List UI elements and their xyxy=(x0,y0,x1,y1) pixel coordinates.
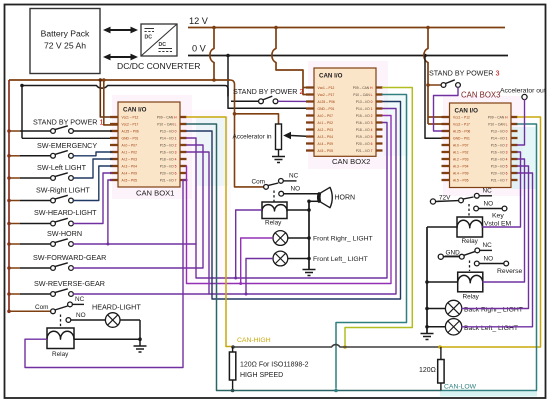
svg-text:NO: NO xyxy=(76,312,86,319)
svg-text:P18 – I/O 4: P18 – I/O 4 xyxy=(160,157,177,161)
svg-text:P16 – I/O 3: P16 – I/O 3 xyxy=(356,121,373,125)
svg-text:AI.25 – P06: AI.25 – P06 xyxy=(122,129,139,133)
svg-text:CAN BOX2: CAN BOX2 xyxy=(332,157,370,166)
svg-text:P16 – I/O 3: P16 – I/O 3 xyxy=(491,150,508,154)
svg-text:SW-FORWARD-GEAR: SW-FORWARD-GEAR xyxy=(33,253,106,262)
switch key 72V xyxy=(459,188,512,228)
svg-text:HIGH SPEED: HIGH SPEED xyxy=(240,372,283,379)
svg-text:Back Left_ LIGHT: Back Left_ LIGHT xyxy=(464,325,518,332)
svg-text:P21 – I/O 7: P21 – I/O 7 xyxy=(356,149,373,153)
horn LS1 xyxy=(309,187,355,207)
svg-text:Relay: Relay xyxy=(462,238,479,245)
svg-text:Vcc1 – P12: Vcc1 – P12 xyxy=(318,86,335,90)
svg-text:P21 – I/O 7: P21 – I/O 7 xyxy=(160,178,177,182)
wire relay K2 left xyxy=(427,226,457,228)
svg-text:12 V: 12 V xyxy=(189,16,209,26)
svg-text:P16 – I/O 3: P16 – I/O 3 xyxy=(160,150,177,154)
wire relay K4 left xyxy=(425,280,458,284)
wire CAN-L from CAN BOX1 and CAN-LOW rail xyxy=(187,124,441,391)
svg-text:Com: Com xyxy=(252,179,266,186)
wire back right lamp to CAN BOX3 xyxy=(462,166,529,309)
relay K4 reverse xyxy=(458,272,483,300)
svg-text:Key: Key xyxy=(492,213,504,220)
svg-text:P19 – I/O 5: P19 – I/O 5 xyxy=(491,164,508,168)
wire relay K1 right xyxy=(287,209,309,211)
ground accelerator in xyxy=(272,157,285,163)
wire relay K4 to CAN BOX3 xyxy=(483,159,525,282)
switch SW9 stand by power 2 xyxy=(233,87,306,104)
svg-text:SW-EMERGENCY: SW-EMERGENCY xyxy=(37,141,97,150)
svg-text:72 V 25 Ah: 72 V 25 Ah xyxy=(44,41,86,51)
bus arrows battery to converter xyxy=(103,27,138,61)
wire front left lamp to CAN BOX2 xyxy=(209,109,396,296)
svg-text:AI.2 – P03: AI.2 – P03 xyxy=(122,157,138,161)
switch SW6 horn xyxy=(7,180,196,246)
svg-text:P19 – I/O 5: P19 – I/O 5 xyxy=(160,164,177,168)
svg-text:AI.4 – P09: AI.4 – P09 xyxy=(122,171,138,175)
can i/o module U3 xyxy=(442,91,518,188)
svg-text:P10 – CAN L: P10 – CAN L xyxy=(157,122,176,126)
wire heard lamp to ground xyxy=(138,320,142,346)
svg-text:CAN I/O: CAN I/O xyxy=(123,107,147,114)
svg-text:HORN: HORN xyxy=(335,195,356,202)
svg-text:P21 – I/O 7: P21 – I/O 7 xyxy=(491,178,508,182)
svg-text:DC: DC xyxy=(159,42,167,48)
wire Vcc feed CAN BOX1 xyxy=(99,78,119,125)
node 0V label xyxy=(192,44,207,54)
wire relay K3 coil right xyxy=(74,338,140,340)
svg-text:GND – P01: GND – P01 xyxy=(318,107,335,111)
svg-text:120Ω For ISO11898-2: 120Ω For ISO11898-2 xyxy=(240,362,309,369)
svg-text:Relay: Relay xyxy=(52,351,69,358)
svg-text:P15 – I/O 2: P15 – I/O 2 xyxy=(356,114,373,118)
relay K3 heard xyxy=(47,328,74,358)
wire back left lamp to CAN BOX3 xyxy=(462,173,533,327)
svg-text:Accelerator in: Accelerator in xyxy=(233,134,273,141)
wire 12V drop to CAN BOX2 xyxy=(272,28,314,95)
wire CAN-H from CAN BOX1 xyxy=(187,117,232,347)
svg-text:SW-Right LIGHT: SW-Right LIGHT xyxy=(36,185,90,194)
terminal accelerator out xyxy=(500,88,546,146)
wire right section bus xyxy=(426,227,428,333)
node CAN-LOW label xyxy=(444,384,477,391)
svg-text:AI.5 – P05: AI.5 – P05 xyxy=(453,178,469,182)
svg-text:Vcc2 – P17: Vcc2 – P17 xyxy=(453,122,470,126)
wire CAN-LOW rail right xyxy=(440,390,537,392)
svg-text:NO: NO xyxy=(484,201,494,208)
wire relay K2 to CAN BOX3 xyxy=(483,152,521,227)
potentiometer accelerator in xyxy=(233,124,282,156)
svg-text:Vcc2 – P17: Vcc2 – P17 xyxy=(122,122,139,126)
svg-text:P18 – I/O 4: P18 – I/O 4 xyxy=(356,128,373,132)
svg-text:CAN I/O: CAN I/O xyxy=(455,108,479,115)
svg-text:AI.2 – P03: AI.2 – P03 xyxy=(318,128,334,132)
svg-text:NO: NO xyxy=(291,186,301,193)
wire left supply rail xyxy=(8,80,10,311)
wire horn feed from CAN BOX1 I/O1 xyxy=(187,138,197,244)
svg-text:P10 – CAN L: P10 – CAN L xyxy=(488,122,507,126)
svg-text:Relay: Relay xyxy=(463,294,480,301)
battery pack xyxy=(30,9,100,74)
ground right bus xyxy=(421,334,434,340)
svg-text:P20 – I/O 6: P20 – I/O 6 xyxy=(491,171,508,175)
svg-text:STAND BY POWER 1: STAND BY POWER 1 xyxy=(33,118,103,127)
lamp back right xyxy=(425,300,523,316)
svg-text:P15 – I/O 2: P15 – I/O 2 xyxy=(160,143,177,147)
svg-text:GND: GND xyxy=(446,250,461,257)
svg-text:CAN BOX1: CAN BOX1 xyxy=(136,189,174,198)
svg-text:CAN BOX3: CAN BOX3 xyxy=(461,91,500,100)
svg-text:P09 – CAN H: P09 – CAN H xyxy=(157,115,177,119)
wire 0V drop to stand-by-power-2 and BOX2 GND xyxy=(228,56,306,109)
wire CAN BOX1 I/O0 interconnect xyxy=(187,102,401,300)
svg-text:AI.25 – P06: AI.25 – P06 xyxy=(453,129,470,133)
wire CAN-L from CAN BOX3 xyxy=(518,124,537,391)
svg-text:Vcc1 – P12: Vcc1 – P12 xyxy=(122,115,139,119)
svg-text:Front Righr_ LIGHT: Front Righr_ LIGHT xyxy=(313,236,373,243)
svg-text:P13 – I/O 0: P13 – I/O 0 xyxy=(356,100,373,104)
svg-text:Front Left_ LIGHT: Front Left_ LIGHT xyxy=(313,256,368,263)
svg-text:HEARD-LIGHT: HEARD-LIGHT xyxy=(92,303,141,312)
svg-text:P18 – I/O 4: P18 – I/O 4 xyxy=(491,157,508,161)
svg-text:AI.3 – P04: AI.3 – P04 xyxy=(318,135,334,139)
switch SW1 stand by power 1 xyxy=(7,118,112,134)
svg-text:AI.3 – P04: AI.3 – P04 xyxy=(122,164,138,168)
relay K1 front xyxy=(262,202,287,227)
terminal GND reverse xyxy=(438,250,461,260)
wire 12V drop to left section xyxy=(210,28,216,82)
lamp back left xyxy=(425,319,518,335)
svg-text:SW-HEARD-LIGHT: SW-HEARD-LIGHT xyxy=(34,208,97,217)
node R1 value label xyxy=(240,362,309,380)
svg-text:AI.25 – P06: AI.25 – P06 xyxy=(318,100,335,104)
svg-text:120Ω: 120Ω xyxy=(419,367,436,374)
svg-text:P19 – I/O 5: P19 – I/O 5 xyxy=(356,135,373,139)
wire relay K1 coil to CAN BOX2 xyxy=(196,123,387,280)
svg-text:STAND BY POWER 2: STAND BY POWER 2 xyxy=(233,87,303,96)
svg-text:0 V: 0 V xyxy=(192,44,207,54)
wire 0V rail xyxy=(188,54,508,58)
svg-text:P20 – I/O 6: P20 – I/O 6 xyxy=(160,171,177,175)
dc/dc converter xyxy=(117,24,200,71)
svg-text:GND – P01: GND – P01 xyxy=(453,136,470,140)
svg-text:DC/DC CONVERTER: DC/DC CONVERTER xyxy=(117,61,200,71)
switch SW4 right light xyxy=(7,166,112,203)
svg-text:P14 – I/O 1: P14 – I/O 1 xyxy=(356,107,373,111)
svg-text:P14 – I/O 1: P14 – I/O 1 xyxy=(491,136,508,140)
svg-text:AI.5 – P05: AI.5 – P05 xyxy=(318,149,334,153)
svg-text:AI.3 – P04: AI.3 – P04 xyxy=(453,164,469,168)
svg-text:AI.1 – P02: AI.1 – P02 xyxy=(122,150,138,154)
relay K2 key xyxy=(457,217,483,245)
svg-text:GND – P01: GND – P01 xyxy=(122,136,139,140)
wire 0V drop to CAN BOX3 GND xyxy=(425,56,442,139)
svg-text:Battery Pack: Battery Pack xyxy=(41,29,90,39)
wire com feed brown xyxy=(230,80,264,187)
ground heard light xyxy=(134,346,147,352)
wire front right lamp to CAN BOX2 xyxy=(187,116,392,286)
wire 0V to SBP1 xyxy=(20,84,110,139)
wire 12V drop to accelerator pot xyxy=(233,112,279,124)
wire CAN-L from CAN BOX2 xyxy=(334,95,406,393)
svg-text:SW-HORN: SW-HORN xyxy=(47,229,82,238)
svg-text:CAN-LOW: CAN-LOW xyxy=(444,384,477,391)
svg-text:NC: NC xyxy=(289,173,299,180)
svg-text:AI.4 – P09: AI.4 – P09 xyxy=(318,142,334,146)
svg-text:P13 – I/O 0: P13 – I/O 0 xyxy=(491,129,508,133)
switch SW5 heard light xyxy=(7,173,112,226)
terminal 72V xyxy=(430,195,458,205)
wire wiper accelerator in xyxy=(283,132,306,139)
can i/o module U2 xyxy=(306,68,383,166)
switch SW10 stand by power 3 xyxy=(428,69,499,132)
svg-text:Back Righr_ LIGHT: Back Righr_ LIGHT xyxy=(464,307,523,314)
node CAN-HIGH label xyxy=(237,337,271,344)
svg-text:AI.0 – P07: AI.0 – P07 xyxy=(453,143,469,147)
svg-text:SW-Left LIGHT: SW-Left LIGHT xyxy=(37,163,87,172)
svg-text:P09 – CAN H: P09 – CAN H xyxy=(488,115,508,119)
svg-text:AI.5 – P05: AI.5 – P05 xyxy=(122,178,138,182)
wire CAN-H from CAN BOX2 xyxy=(343,88,412,349)
svg-text:DC: DC xyxy=(145,35,153,41)
node R2 value label xyxy=(419,367,436,374)
svg-text:Vcc2 – P17: Vcc2 – P17 xyxy=(318,93,335,97)
svg-text:Relay: Relay xyxy=(265,220,282,227)
svg-text:P09 – CAN H: P09 – CAN H xyxy=(353,86,373,90)
lamp front left xyxy=(273,251,368,266)
svg-text:Reverse: Reverse xyxy=(497,268,523,275)
svg-text:Com: Com xyxy=(35,304,49,311)
wire brown feed rail xyxy=(9,79,230,81)
wire black 0V rail left xyxy=(22,86,228,97)
wire relay K3 coil to CAN BOX1 I/O7 xyxy=(25,180,187,368)
resistor R1 120ohm xyxy=(229,347,235,392)
switch com heard relay xyxy=(7,296,85,327)
switch SW8 reverse gear xyxy=(7,152,209,296)
switch reverse xyxy=(459,242,522,275)
switch SW7 forward gear xyxy=(7,145,203,270)
svg-text:P20 – I/O 6: P20 – I/O 6 xyxy=(356,142,373,146)
svg-text:CAN I/O: CAN I/O xyxy=(319,73,343,80)
svg-text:AI.0 – P07: AI.0 – P07 xyxy=(122,143,138,147)
svg-text:P14 – I/O 1: P14 – I/O 1 xyxy=(160,136,177,140)
svg-text:NC: NC xyxy=(75,296,85,303)
svg-text:AI.1 – P02: AI.1 – P02 xyxy=(318,121,334,125)
lamp front right xyxy=(273,231,373,246)
svg-text:P15 – I/O 2: P15 – I/O 2 xyxy=(491,143,508,147)
svg-text:P13 – I/O 0: P13 – I/O 0 xyxy=(160,129,177,133)
svg-text:NO: NO xyxy=(484,256,494,263)
switch SW2 emergency xyxy=(7,141,112,158)
wire CAN-HIGH rail xyxy=(231,345,540,349)
svg-text:AI.4 – P09: AI.4 – P09 xyxy=(453,171,469,175)
svg-text:NC: NC xyxy=(483,188,493,195)
svg-text:NC: NC xyxy=(483,242,493,249)
svg-text:SW-REVERSE-GEAR: SW-REVERSE-GEAR xyxy=(34,279,105,288)
ground front bus xyxy=(303,270,316,276)
svg-text:Accelerator out: Accelerator out xyxy=(500,88,546,95)
switch SW3 left light xyxy=(7,159,112,180)
svg-text:AI.1 – P02: AI.1 – P02 xyxy=(453,150,469,154)
resistor R2 120ohm xyxy=(438,347,444,391)
svg-text:CAN-HIGH: CAN-HIGH xyxy=(237,337,271,344)
wire CAN-H from CAN BOX3 xyxy=(518,117,541,347)
svg-text:AI.2 – P03: AI.2 – P03 xyxy=(453,157,469,161)
svg-text:Vcc1 – P12: Vcc1 – P12 xyxy=(453,115,470,119)
wire front bus xyxy=(307,200,311,270)
switch com front relay xyxy=(252,173,319,202)
node 12V label xyxy=(189,16,209,26)
lamp heard light xyxy=(71,303,142,328)
wire 12V rail xyxy=(188,26,505,30)
can i/o module U1 xyxy=(110,102,187,198)
wire 12V drop to CAN BOX3 xyxy=(424,28,442,125)
svg-text:AI.0 – P07: AI.0 – P07 xyxy=(318,114,334,118)
svg-text:STAND BY POWER 3: STAND BY POWER 3 xyxy=(429,69,499,78)
svg-text:P10 – CAN L: P10 – CAN L xyxy=(353,93,372,97)
